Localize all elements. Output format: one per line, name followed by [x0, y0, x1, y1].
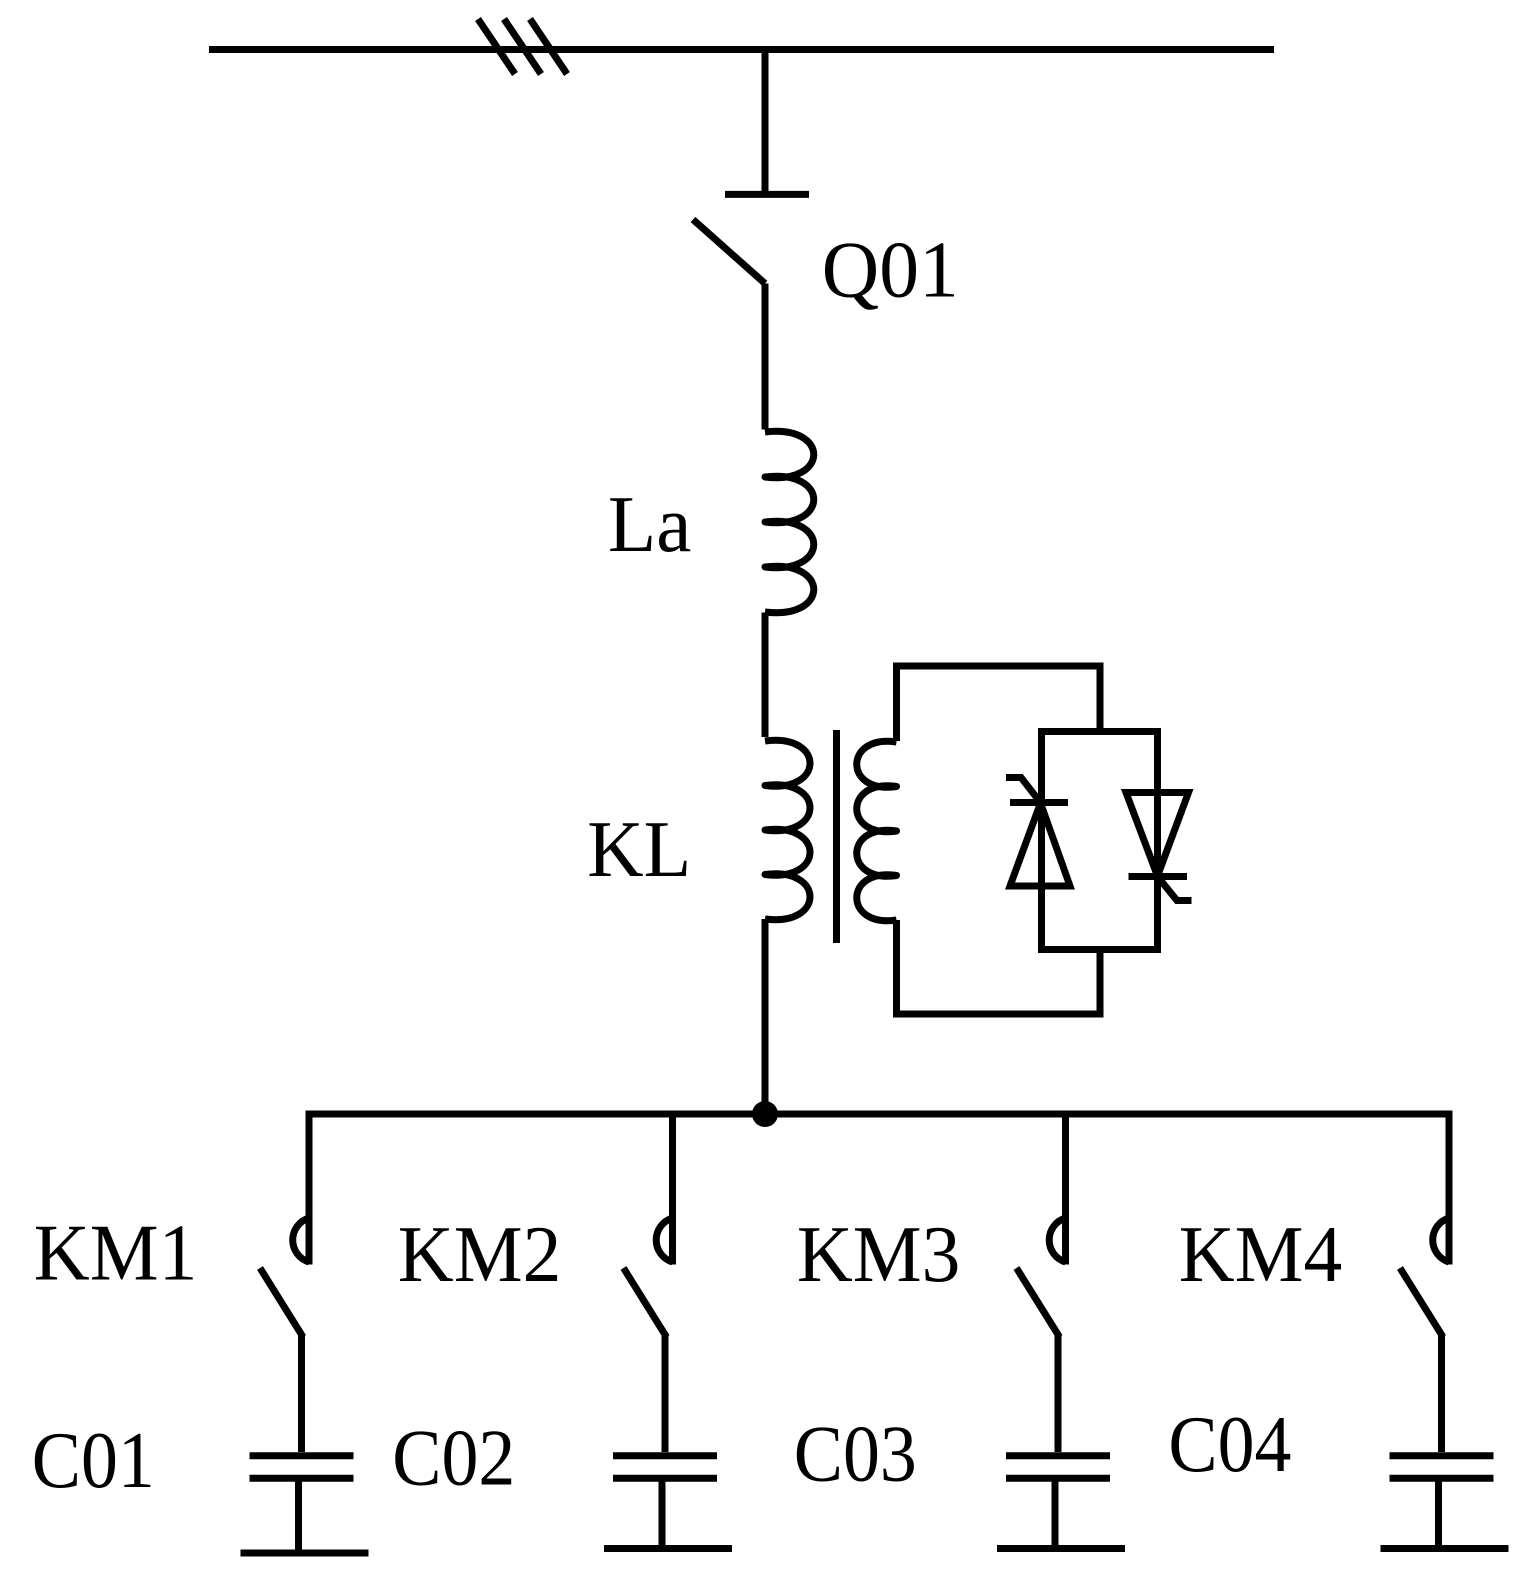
- busbar top: [209, 46, 1274, 53]
- label KM4: [1179, 1209, 1343, 1299]
- wire stub branch 1: [306, 1111, 313, 1265]
- svg-text:C04: C04: [1168, 1399, 1291, 1489]
- three-phase slashes: [478, 19, 567, 74]
- wire secondary top feed: [897, 666, 1101, 741]
- wire C01 to terminal: [295, 1478, 302, 1553]
- capacitor C01 bottom plate: [250, 1475, 354, 1482]
- svg-text:C01: C01: [32, 1415, 155, 1505]
- wire KL to junction: [762, 919, 769, 1114]
- svg-text:KL: KL: [587, 804, 691, 894]
- capacitor C04 bottom plate: [1390, 1475, 1494, 1482]
- contactor KM2 blade: [624, 1268, 667, 1337]
- thyristor V2 triangle: [1126, 793, 1189, 877]
- thyristor V1 gate: [1006, 778, 1041, 803]
- disconnector Q01 fixed contact bar: [725, 191, 809, 198]
- inductor La: [765, 431, 814, 612]
- label C01: [32, 1415, 155, 1505]
- thyristor V2 gate: [1158, 877, 1192, 901]
- label C03: [794, 1409, 917, 1499]
- transformer core: [833, 730, 840, 943]
- contactor KM4 blade: [1400, 1268, 1443, 1337]
- svg-text:C03: C03: [794, 1409, 917, 1499]
- wire secondary bottom feed: [897, 920, 1101, 1014]
- thyristor V1 triangle: [1010, 803, 1070, 886]
- wire C02 to terminal: [659, 1478, 666, 1548]
- contactor KM2 arc: [656, 1218, 672, 1262]
- contactor KM3 arc: [1049, 1218, 1065, 1262]
- capacitor C02 top plate: [613, 1452, 717, 1459]
- label KM3: [797, 1209, 961, 1299]
- svg-text:KM4: KM4: [1179, 1209, 1343, 1299]
- svg-text:KM3: KM3: [797, 1209, 961, 1299]
- contactor KM4 arc: [1433, 1218, 1449, 1262]
- terminal bar branch 1: [241, 1550, 369, 1557]
- svg-text:KM2: KM2: [398, 1209, 562, 1299]
- svg-text:C02: C02: [392, 1413, 515, 1503]
- capacitor C04 top plate: [1390, 1452, 1494, 1459]
- disconnector Q01 blade: [693, 220, 765, 284]
- wire thyristor valve frame: [1042, 732, 1158, 950]
- label La: [608, 479, 692, 569]
- wire C03 to terminal: [1052, 1478, 1059, 1548]
- wire stub branch 4: [1446, 1111, 1453, 1265]
- label Q01: [822, 225, 959, 315]
- wire Q01 to La: [762, 284, 769, 430]
- label KL: [587, 804, 691, 894]
- wire stub branch 3: [1062, 1111, 1069, 1265]
- wire busbar to Q01: [762, 50, 769, 195]
- contactor KM3 blade: [1017, 1268, 1060, 1337]
- wire La to transformer KL: [762, 613, 769, 738]
- transformer KL secondary coil: [857, 741, 897, 920]
- svg-text:KM1: KM1: [34, 1207, 198, 1297]
- wire C04 to terminal: [1435, 1478, 1442, 1548]
- thyristor V1 cathode bar: [1010, 799, 1068, 806]
- wire KM3 to C03: [1055, 1335, 1062, 1452]
- capacitor C03 bottom plate: [1006, 1475, 1110, 1482]
- label KM1: [34, 1207, 198, 1297]
- label KM2: [398, 1209, 562, 1299]
- busbar bottom: [309, 1111, 1449, 1118]
- capacitor C02 bottom plate: [613, 1475, 717, 1482]
- label C04: [1168, 1399, 1291, 1489]
- wire KM1 to C01: [298, 1335, 305, 1452]
- svg-text:Q01: Q01: [822, 225, 959, 315]
- junction node: [752, 1101, 778, 1127]
- contactor KM1 arc: [293, 1218, 309, 1262]
- capacitor C01 top plate: [250, 1452, 354, 1459]
- label C02: [392, 1413, 515, 1503]
- terminal bar branch 4: [1381, 1545, 1509, 1552]
- terminal bar branch 2: [604, 1545, 732, 1552]
- wire KM2 to C02: [662, 1335, 669, 1452]
- thyristor V2 anode bar: [1129, 873, 1188, 880]
- contactor KM1 blade: [260, 1268, 303, 1337]
- svg-text:La: La: [608, 479, 692, 569]
- wire stub branch 2: [669, 1111, 676, 1265]
- terminal bar branch 3: [997, 1545, 1125, 1552]
- transformer KL primary coil: [765, 740, 810, 919]
- capacitor C03 top plate: [1006, 1452, 1110, 1459]
- wire KM4 to C04: [1438, 1335, 1445, 1452]
